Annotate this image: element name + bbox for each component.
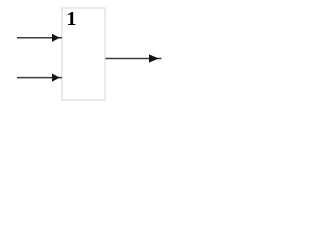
block node 1 (rectangle) <box>62 8 105 100</box>
input arrowhead top <box>52 34 60 42</box>
svg-text:1: 1 <box>66 8 76 30</box>
input wire top <box>17 37 62 39</box>
input wire bottom <box>17 77 62 79</box>
input arrowhead bottom <box>52 74 60 82</box>
output arrowhead <box>149 54 159 62</box>
output wire <box>106 58 162 60</box>
